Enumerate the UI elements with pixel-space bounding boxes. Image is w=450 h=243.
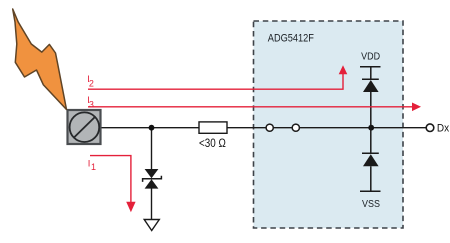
svg-text:VSS: VSS (362, 198, 380, 210)
svg-text:<30 Ω: <30 Ω (199, 137, 226, 150)
svg-text:2: 2 (89, 78, 94, 88)
svg-text:1: 1 (91, 162, 96, 172)
svg-text:3: 3 (89, 99, 94, 109)
svg-text:I: I (88, 158, 91, 169)
svg-text:ADG5412F: ADG5412F (268, 33, 314, 45)
svg-text:VDD: VDD (361, 51, 380, 63)
svg-text:Dx: Dx (437, 122, 450, 135)
